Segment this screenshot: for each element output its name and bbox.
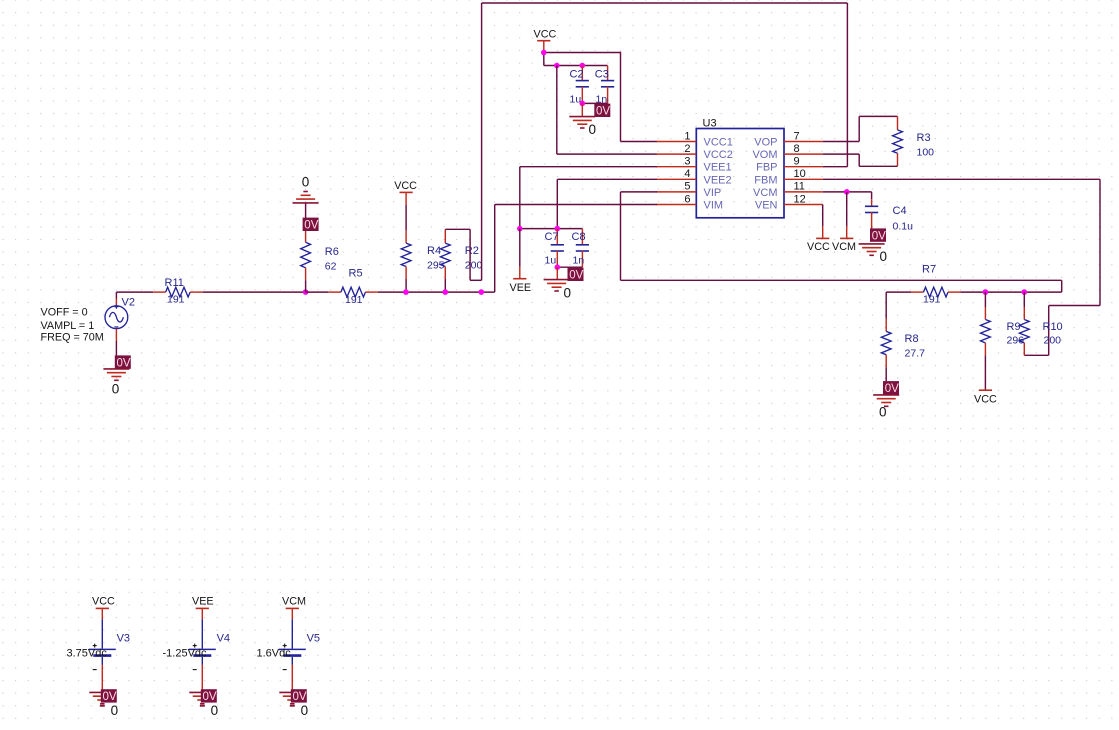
- reference designator V2: [122, 297, 135, 309]
- wire: [846, 3, 848, 167]
- svg-text:U3: U3: [703, 117, 717, 129]
- svg-text:0V: 0V: [596, 106, 610, 118]
- U3 right pin names: [752, 137, 777, 212]
- ground 0 (under V3): [89, 692, 118, 718]
- ground 0 (under C7/C8): [544, 267, 571, 300]
- ground 0 (under V2): [103, 369, 129, 397]
- svg-text:6: 6: [684, 193, 690, 205]
- wire: [1061, 280, 1063, 292]
- power symbol VCC (below R9): [974, 390, 997, 406]
- svg-text:-1.25Vdc: -1.25Vdc: [163, 648, 208, 660]
- svg-text:C8: C8: [572, 231, 586, 243]
- reference designator V3: [117, 633, 130, 645]
- label C2: [570, 69, 584, 81]
- svg-text:V3: V3: [117, 633, 130, 645]
- wire: [886, 291, 911, 293]
- DC source V4: [189, 608, 216, 689]
- capacitor C8: [576, 229, 589, 268]
- ground 0 (under C4): [859, 244, 887, 264]
- label R10: [1043, 321, 1063, 333]
- power symbol VEE (below rail): [510, 229, 532, 294]
- svg-text:VCC: VCC: [92, 596, 115, 608]
- svg-text:R4: R4: [427, 245, 441, 257]
- value 200 (R2): [465, 260, 483, 272]
- svg-text:VCC: VCC: [534, 28, 557, 40]
- svg-text:0: 0: [589, 122, 597, 137]
- reference designator V5: [307, 633, 320, 645]
- wire: [823, 141, 859, 143]
- svg-text:4: 4: [684, 168, 690, 180]
- svg-text:R3: R3: [917, 132, 931, 144]
- svg-text:0V: 0V: [117, 357, 131, 369]
- junction dot: [303, 289, 309, 295]
- wire: [494, 205, 496, 293]
- svg-text:200: 200: [1044, 335, 1062, 347]
- svg-text:C3: C3: [595, 69, 609, 81]
- label R7: [922, 263, 936, 275]
- svg-text:R11: R11: [165, 277, 184, 289]
- wire: [469, 229, 471, 280]
- wire: [823, 153, 859, 155]
- wire: [482, 2, 848, 4]
- svg-text:R7: R7: [922, 263, 936, 275]
- svg-text:0: 0: [211, 703, 219, 718]
- wire: [544, 52, 621, 54]
- svg-text:62: 62: [325, 261, 337, 273]
- svg-text:FBP: FBP: [756, 162, 777, 174]
- svg-text:VEE: VEE: [510, 282, 532, 294]
- svg-text:VIP: VIP: [704, 187, 722, 199]
- svg-text:2: 2: [684, 143, 690, 155]
- wire: [543, 53, 545, 66]
- resistor R10: [1019, 292, 1029, 355]
- value 295 (R4): [427, 260, 445, 272]
- svg-text:VOM: VOM: [752, 149, 777, 161]
- ground 0 (under R8): [873, 395, 899, 420]
- junction dot: [1022, 289, 1028, 295]
- label R11: [165, 277, 184, 289]
- resistor R5: [328, 287, 378, 297]
- wire: [620, 192, 622, 280]
- resistor R4: [401, 192, 411, 292]
- junction dot: [555, 264, 561, 270]
- svg-text:FREQ = 70M: FREQ = 70M: [41, 331, 104, 343]
- junction dot: [555, 226, 561, 232]
- wire: [470, 279, 482, 281]
- svg-text:191: 191: [167, 294, 185, 306]
- wire: [556, 66, 558, 155]
- capacitor C7: [551, 229, 564, 268]
- svg-text:9: 9: [794, 156, 800, 168]
- value 62 (R6): [325, 261, 337, 273]
- svg-text:C7: C7: [545, 231, 559, 243]
- label C4: [893, 205, 907, 217]
- svg-text:VIM: VIM: [704, 200, 724, 212]
- svg-text:7: 7: [794, 130, 800, 142]
- svg-text:VAMPL = 1: VAMPL = 1: [41, 320, 95, 332]
- svg-text:11: 11: [794, 181, 805, 193]
- op-amp U3 (fully differential amplifier) body and pin stubs: [656, 129, 823, 218]
- value -1.25Vdc (V4): [163, 648, 208, 660]
- capacitor C4: [865, 192, 878, 229]
- bias label 0V (V2 ground): [115, 355, 131, 369]
- svg-text:10: 10: [794, 168, 806, 180]
- svg-text:3.75Vdc: 3.75Vdc: [67, 648, 108, 660]
- svg-text:R2: R2: [465, 245, 479, 257]
- wire: [378, 291, 495, 293]
- label R8: [905, 333, 919, 345]
- label R5: [349, 267, 363, 279]
- wire: [858, 116, 860, 141]
- label R4: [427, 245, 441, 257]
- resistor R8: [881, 292, 891, 381]
- svg-text:8: 8: [794, 143, 800, 155]
- wire: [621, 141, 658, 143]
- wire: [495, 204, 657, 206]
- svg-text:C4: C4: [893, 205, 907, 217]
- svg-text:VEN: VEN: [755, 200, 778, 212]
- U3 left pin names: [704, 137, 733, 212]
- value 100 (R3): [917, 147, 935, 159]
- resistor R2: [440, 229, 450, 292]
- svg-text:VEE: VEE: [192, 596, 214, 608]
- power symbol VCC (above V3): [92, 596, 115, 609]
- svg-text:V5: V5: [307, 633, 320, 645]
- svg-text:VOFF = 0: VOFF = 0: [41, 306, 88, 318]
- svg-text:R10: R10: [1043, 321, 1063, 333]
- ground 0 (flipped, above R6): [293, 175, 319, 203]
- svg-text:VCC: VCC: [974, 394, 997, 406]
- svg-text:1: 1: [684, 130, 690, 142]
- junction dot: [443, 289, 449, 295]
- svg-text:0: 0: [879, 405, 887, 420]
- ground 0 (under V4): [189, 692, 218, 718]
- wire: [116, 291, 153, 293]
- wire: [1099, 179, 1101, 305]
- value 1u (C7): [545, 254, 557, 266]
- wire: [306, 291, 329, 293]
- label C7: [545, 231, 559, 243]
- svg-text:VEE1: VEE1: [704, 162, 732, 174]
- svg-text:191: 191: [345, 294, 363, 306]
- junction dot: [580, 63, 586, 69]
- junction dot: [479, 289, 485, 295]
- svg-text:C2: C2: [570, 69, 584, 81]
- wire: [203, 291, 306, 293]
- svg-text:0: 0: [111, 703, 119, 718]
- wire: [519, 167, 521, 229]
- power symbol VCC (above R4): [394, 180, 417, 192]
- svg-text:0V: 0V: [885, 383, 899, 395]
- value 296 (R9): [1007, 335, 1025, 347]
- wire: [859, 115, 897, 117]
- value 1.6Vdc (V5): [257, 648, 292, 660]
- svg-text:R8: R8: [905, 333, 919, 345]
- wire: [823, 178, 1100, 180]
- wire: [582, 102, 607, 104]
- value 200 (R10): [1044, 335, 1062, 347]
- bias label 0V (above R6): [303, 218, 319, 232]
- wire: [621, 191, 658, 193]
- value 27.7 (R8): [905, 348, 926, 360]
- wire: [621, 279, 1062, 281]
- svg-text:3: 3: [684, 156, 690, 168]
- svg-text:0V: 0V: [203, 691, 217, 703]
- sine source V2: [105, 292, 128, 356]
- value 3.75Vdc (V3): [67, 648, 108, 660]
- reference designator V4: [217, 633, 230, 645]
- bias label 0V (V4 ground): [201, 689, 217, 703]
- svg-text:VCC1: VCC1: [704, 137, 733, 149]
- wire: [859, 165, 897, 167]
- svg-text:R6: R6: [325, 246, 339, 258]
- U3 left pin numbers 1-6: [684, 130, 690, 205]
- wire: [823, 166, 848, 168]
- bias label 0V (V5 ground): [291, 689, 307, 703]
- wire: [1049, 305, 1100, 307]
- resistor R6: [301, 203, 311, 292]
- svg-text:V4: V4: [217, 633, 230, 645]
- wire: [1024, 354, 1048, 356]
- wire: [544, 65, 608, 67]
- DC source V3: [89, 608, 116, 689]
- label R9: [1007, 321, 1021, 333]
- svg-text:0: 0: [301, 703, 309, 718]
- svg-text:VOP: VOP: [754, 137, 777, 149]
- wire: [823, 191, 872, 193]
- label C8: [572, 231, 586, 243]
- svg-text:VCC2: VCC2: [704, 149, 733, 161]
- label R3: [917, 132, 931, 144]
- wire: [620, 52, 622, 142]
- wire: [481, 3, 483, 280]
- resistor R3: [893, 116, 903, 166]
- svg-text:12: 12: [794, 193, 806, 205]
- svg-text:VEE2: VEE2: [704, 174, 732, 186]
- svg-text:VCM: VCM: [282, 596, 306, 608]
- wire: [445, 228, 470, 230]
- wire: [557, 266, 582, 268]
- svg-text:100: 100: [917, 147, 935, 159]
- svg-text:1n: 1n: [573, 254, 585, 266]
- svg-text:0.1u: 0.1u: [893, 221, 914, 233]
- svg-text:VCM: VCM: [832, 241, 856, 253]
- reference designator U3: [703, 117, 717, 129]
- label C3: [595, 69, 609, 81]
- svg-text:FBM: FBM: [754, 174, 777, 186]
- label R2: [465, 245, 479, 257]
- svg-text:0V: 0V: [872, 230, 886, 242]
- svg-text:200: 200: [465, 260, 483, 272]
- wire: [961, 291, 1062, 293]
- value 191 (R7): [923, 294, 941, 306]
- wire: [858, 154, 860, 166]
- value 0.1u (C4): [893, 221, 914, 233]
- svg-text:0V: 0V: [569, 270, 583, 282]
- junction dot: [554, 63, 560, 69]
- U3 right pin numbers 7-12: [794, 130, 806, 205]
- ground 0 (under C2/C3): [569, 103, 596, 137]
- svg-text:0: 0: [302, 175, 310, 190]
- label R6: [325, 246, 339, 258]
- junction dot: [580, 101, 586, 107]
- resistor R11: [153, 287, 203, 297]
- svg-text:27.7: 27.7: [905, 348, 926, 360]
- svg-text:R5: R5: [349, 267, 363, 279]
- power symbol VCM (above V5): [282, 596, 306, 609]
- svg-text:1u: 1u: [545, 254, 557, 266]
- wire: [556, 179, 558, 228]
- bias label 0V (C2/C3 ground): [594, 104, 610, 118]
- svg-text:0V: 0V: [103, 691, 117, 703]
- svg-text:191: 191: [923, 294, 941, 306]
- junction dot: [541, 50, 547, 56]
- svg-text:0V: 0V: [293, 691, 307, 703]
- svg-text:0: 0: [880, 249, 888, 264]
- junction dot: [844, 189, 850, 195]
- svg-text:VCM: VCM: [753, 187, 777, 199]
- value 191 (R5): [345, 294, 363, 306]
- wire: [520, 228, 583, 230]
- capacitor C3: [601, 66, 614, 104]
- resistor R7: [911, 287, 961, 297]
- bias label 0V (V3 ground): [101, 689, 117, 703]
- value 1n: [596, 94, 608, 106]
- svg-text:R9: R9: [1007, 321, 1021, 333]
- bias label 0V (C7/C8 ground): [568, 268, 584, 282]
- V2 source parameters: [41, 306, 104, 343]
- resistor R9: [981, 292, 991, 390]
- power symbol VEE (above V4): [192, 596, 214, 609]
- junction dot: [403, 289, 409, 295]
- junction dot: [983, 289, 989, 295]
- wire: [520, 166, 657, 168]
- wire: [557, 178, 657, 180]
- power symbol VCM (below pin 11): [832, 192, 856, 253]
- bias label 0V (R8 ground): [883, 381, 899, 395]
- bias label 0V (C4 ground): [870, 228, 886, 242]
- svg-text:0V: 0V: [304, 220, 318, 232]
- svg-text:V2: V2: [122, 297, 135, 309]
- capacitor C2: [576, 66, 589, 104]
- power symbol VCC (below pin 12): [807, 205, 830, 254]
- power symbol VCC (top, feeds U3 VCC1/VCC2): [534, 28, 557, 52]
- value 191 (R11): [167, 294, 185, 306]
- svg-text:1.6Vdc: 1.6Vdc: [257, 648, 292, 660]
- svg-text:0: 0: [112, 381, 120, 396]
- svg-text:0: 0: [564, 285, 572, 300]
- svg-text:VCC: VCC: [807, 241, 830, 253]
- value 1n (C8): [573, 254, 585, 266]
- junction dot: [517, 226, 523, 232]
- value 1u: [570, 94, 582, 106]
- svg-text:5: 5: [684, 181, 690, 193]
- svg-text:VCC: VCC: [394, 180, 417, 192]
- wire: [1048, 306, 1050, 356]
- ground 0 (under V5): [279, 692, 308, 718]
- wire: [557, 153, 657, 155]
- DC source V5: [279, 608, 306, 689]
